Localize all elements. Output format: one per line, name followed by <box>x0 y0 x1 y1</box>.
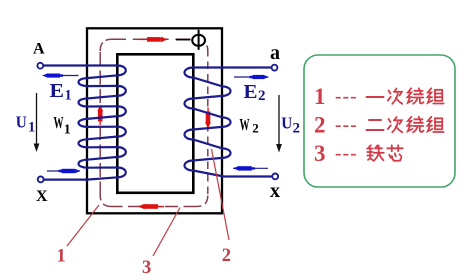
flux symbol phi <box>176 30 205 50</box>
bottom-right corner <box>197 196 208 207</box>
svg-text:1: 1 <box>57 247 66 267</box>
glyph 铁 <box>367 145 383 161</box>
right edge <box>207 49 209 196</box>
glyph 绕 <box>408 88 424 104</box>
pointer line 1 (to primary winding) <box>67 205 99 246</box>
top-right corner (under phi) <box>197 39 208 51</box>
svg-text:W: W <box>54 113 64 132</box>
svg-text:1: 1 <box>65 88 72 104</box>
svg-text:2: 2 <box>258 88 266 104</box>
flux arrow right limb (points down) <box>205 108 211 129</box>
svg-text:---: --- <box>335 115 358 136</box>
svg-text:E: E <box>50 80 65 102</box>
svg-text:U: U <box>16 113 27 132</box>
svg-text:2: 2 <box>222 246 231 266</box>
svg-text:1: 1 <box>64 123 71 138</box>
E2 current arrow (points right) <box>234 75 269 80</box>
iron core inner edge (window) <box>117 54 193 193</box>
flux arrow left limb (points up) <box>97 105 103 125</box>
svg-text:W: W <box>240 115 250 134</box>
glyph 次 <box>388 89 402 104</box>
E1 current arrow (points left) <box>43 73 79 78</box>
U1 voltage arrow (down) <box>34 93 40 152</box>
svg-text:x: x <box>270 180 280 202</box>
flux arrow bottom (points left) <box>138 204 164 210</box>
svg-text:---: --- <box>335 86 358 107</box>
flux path (red dashed rounded loop) <box>100 39 208 206</box>
bottom-left corner <box>100 196 111 207</box>
top edge <box>112 38 194 40</box>
legend box (green rounded) <box>304 55 455 187</box>
pointer line 3 (to core) <box>153 208 180 257</box>
pointer line 2 (to secondary winding) <box>212 149 230 240</box>
glyph 组 <box>428 88 444 103</box>
terminal X <box>38 177 44 183</box>
flux arrow top (points right) <box>139 37 168 43</box>
svg-text:---: --- <box>335 143 358 164</box>
svg-text:3: 3 <box>314 141 326 166</box>
svg-text:2: 2 <box>314 113 326 138</box>
glyph 二 <box>367 120 384 130</box>
terminal x <box>272 174 278 180</box>
terminal a <box>272 65 278 71</box>
glyph 绕 (row2) <box>408 117 424 133</box>
secondary winding W2 (right limb coil) <box>185 68 272 177</box>
svg-text:3: 3 <box>142 258 151 278</box>
X-side current arrow (points right) <box>47 169 81 174</box>
svg-text:1: 1 <box>28 120 35 136</box>
top-left corner <box>100 39 111 51</box>
glyph 芯 <box>387 145 402 161</box>
svg-text:E: E <box>244 81 258 103</box>
svg-text:U: U <box>281 114 292 133</box>
svg-text:a: a <box>270 42 280 64</box>
svg-text:1: 1 <box>314 84 326 109</box>
primary winding W1 (left limb coil) <box>44 66 126 180</box>
glyph 次 (row2) <box>388 117 402 132</box>
iron core outer edge <box>87 28 222 213</box>
svg-text:X: X <box>36 188 48 205</box>
U2 voltage arrow (down) <box>276 95 282 153</box>
svg-text:A: A <box>33 41 45 58</box>
svg-text:2: 2 <box>252 121 258 136</box>
glyph 一 <box>367 96 384 98</box>
bottom edge <box>112 206 197 208</box>
svg-text:2: 2 <box>293 121 301 137</box>
terminal A <box>37 63 43 69</box>
x-side current arrow (points left) <box>233 166 268 171</box>
left edge <box>99 49 101 196</box>
glyph 组 (row2) <box>428 117 444 132</box>
